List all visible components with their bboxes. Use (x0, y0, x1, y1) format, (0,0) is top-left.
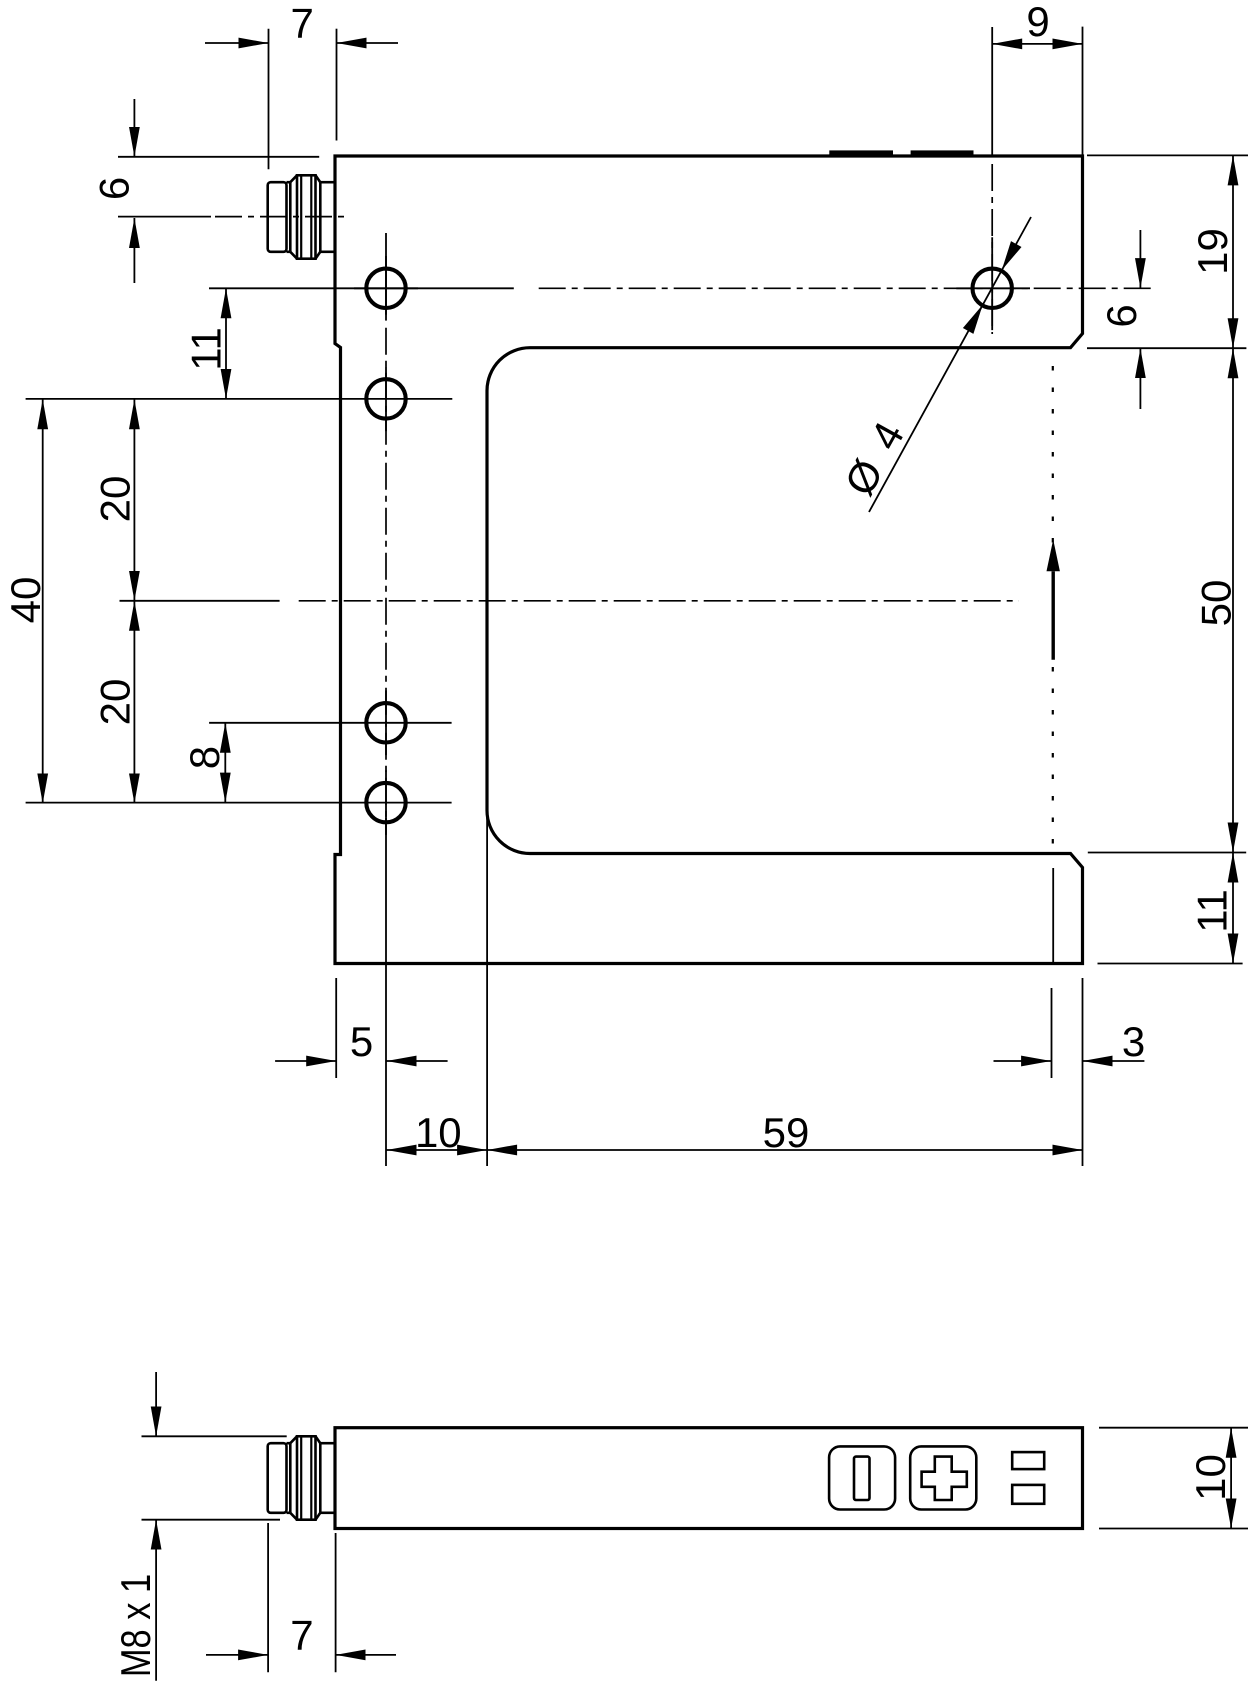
svg-text:7: 7 (291, 0, 314, 47)
svg-text:6: 6 (1098, 304, 1145, 327)
svg-text:50: 50 (1192, 580, 1239, 627)
svg-text:M8 x 1: M8 x 1 (113, 1574, 160, 1677)
svg-text:19: 19 (1189, 228, 1236, 275)
svg-text:5: 5 (350, 1018, 373, 1065)
svg-text:59: 59 (763, 1109, 810, 1156)
svg-text:11: 11 (183, 327, 230, 371)
svg-text:11: 11 (1188, 889, 1235, 933)
svg-text:20: 20 (92, 476, 139, 523)
svg-text:9: 9 (1026, 0, 1049, 45)
svg-text:20: 20 (92, 679, 139, 726)
svg-text:10: 10 (1187, 1454, 1234, 1501)
svg-text:40: 40 (2, 577, 49, 624)
svg-text:7: 7 (290, 1612, 313, 1659)
svg-text:6: 6 (91, 177, 138, 200)
svg-text:3: 3 (1122, 1018, 1145, 1065)
svg-text:8: 8 (181, 746, 228, 769)
svg-text:10: 10 (415, 1109, 462, 1156)
